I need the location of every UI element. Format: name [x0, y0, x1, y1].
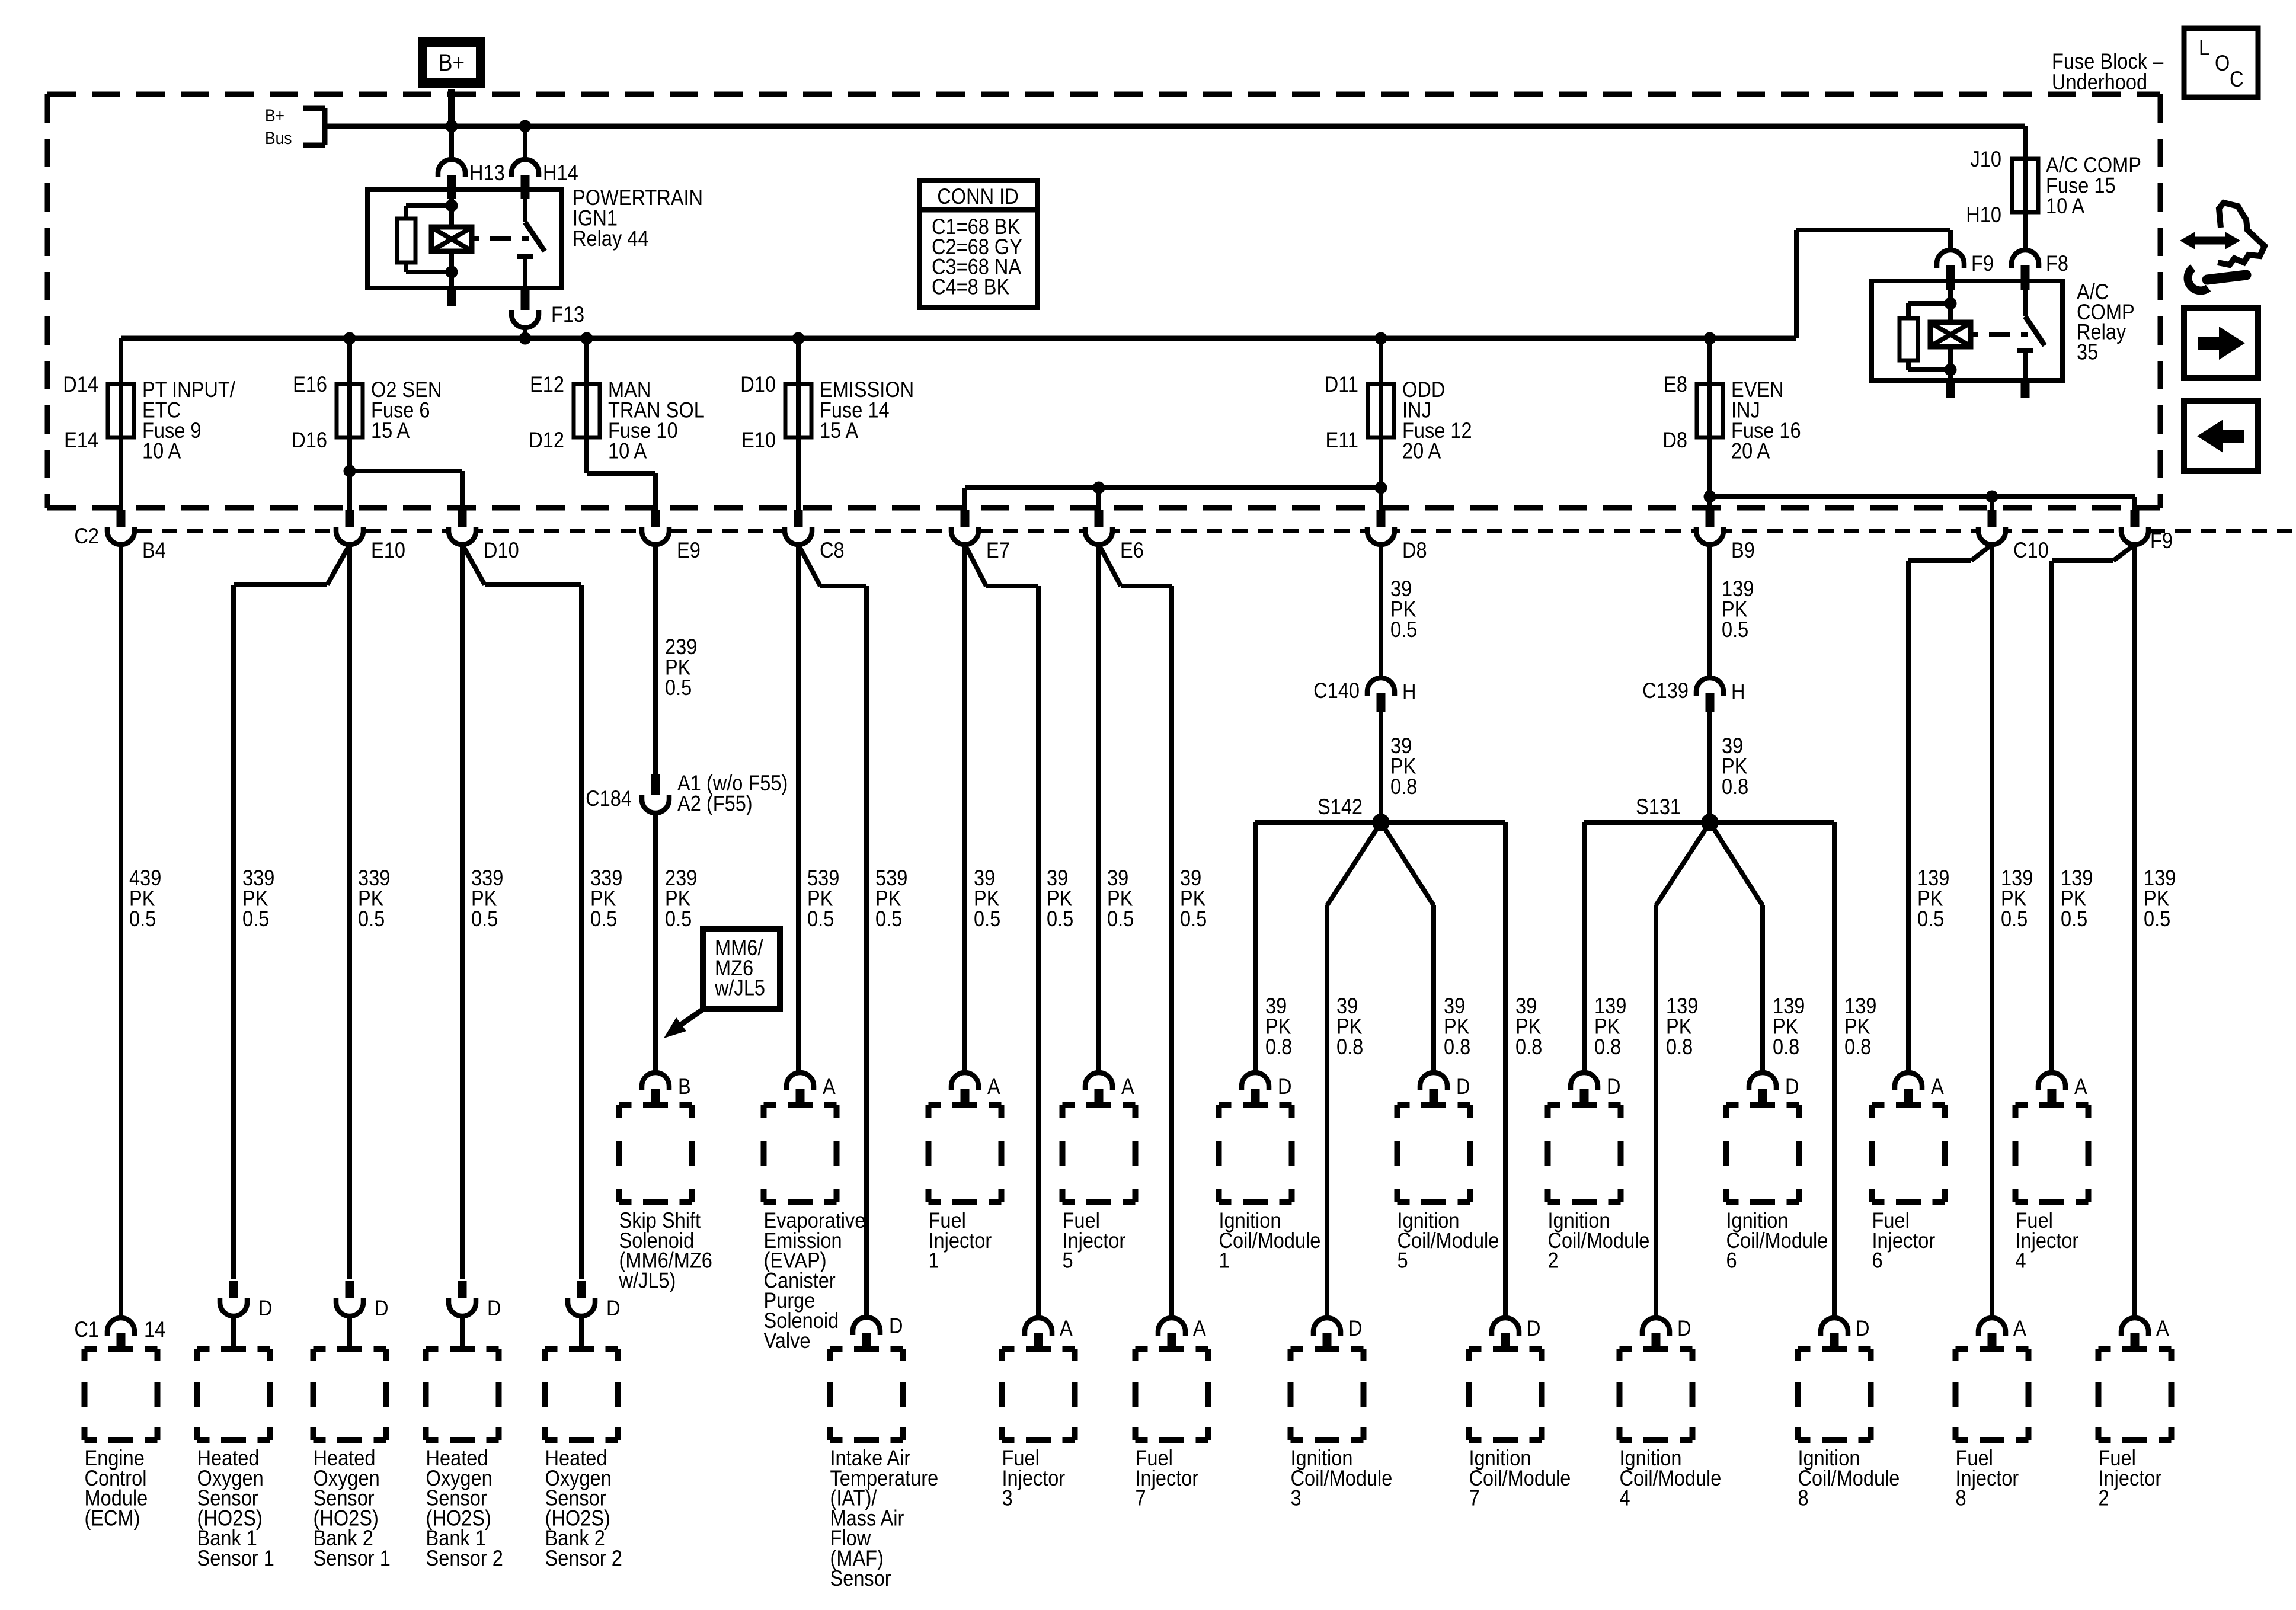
svg-text:E8: E8 — [1664, 372, 1687, 396]
svg-text:H: H — [1731, 680, 1745, 704]
svg-text:C: C — [2230, 67, 2244, 91]
svg-text:20 A: 20 A — [1402, 439, 1441, 463]
svg-text:0.8: 0.8 — [1390, 774, 1417, 799]
svg-text:F9: F9 — [1971, 251, 1994, 276]
svg-text:14: 14 — [144, 1317, 165, 1342]
svg-text:C4=8 BK: C4=8 BK — [932, 274, 1009, 299]
svg-text:E16: E16 — [293, 372, 327, 396]
svg-text:0.8: 0.8 — [1265, 1035, 1292, 1059]
svg-text:D: D — [258, 1296, 273, 1320]
svg-text:E10: E10 — [371, 538, 405, 562]
svg-text:w/JL5: w/JL5 — [714, 976, 765, 1000]
svg-text:0.5: 0.5 — [358, 907, 385, 931]
svg-text:E10: E10 — [741, 428, 776, 452]
svg-text:0.8: 0.8 — [1844, 1035, 1871, 1059]
svg-text:0.5: 0.5 — [1917, 907, 1944, 931]
svg-text:0.5: 0.5 — [590, 907, 617, 931]
svg-text:H14: H14 — [543, 161, 578, 185]
svg-text:C184: C184 — [586, 786, 632, 811]
svg-text:2: 2 — [1548, 1249, 1559, 1273]
svg-text:0.8: 0.8 — [1773, 1035, 1799, 1059]
svg-text:A: A — [1121, 1074, 1134, 1099]
svg-text:20 A: 20 A — [1731, 439, 1770, 463]
svg-text:F9: F9 — [2150, 529, 2173, 553]
svg-text:0.5: 0.5 — [1047, 907, 1073, 931]
svg-text:0.5: 0.5 — [129, 907, 156, 931]
svg-text:D: D — [606, 1296, 621, 1320]
svg-text:0.5: 0.5 — [2144, 907, 2170, 931]
svg-text:E9: E9 — [677, 538, 701, 562]
svg-text:10 A: 10 A — [608, 439, 647, 463]
svg-text:Underhood: Underhood — [2052, 70, 2147, 94]
svg-text:0.5: 0.5 — [1180, 907, 1207, 931]
svg-text:D: D — [889, 1314, 903, 1338]
svg-text:Sensor 1: Sensor 1 — [197, 1546, 274, 1570]
svg-text:Coil/Module: Coil/Module — [1219, 1228, 1321, 1253]
svg-text:35: 35 — [2077, 340, 2098, 364]
svg-text:0.8: 0.8 — [1594, 1035, 1621, 1059]
svg-text:D: D — [1456, 1074, 1470, 1099]
svg-text:0.8: 0.8 — [1722, 774, 1748, 799]
svg-text:S131: S131 — [1636, 795, 1681, 819]
svg-text:2: 2 — [2099, 1486, 2109, 1510]
svg-text:E6: E6 — [1120, 538, 1144, 562]
svg-text:S142: S142 — [1318, 795, 1363, 819]
svg-text:Sensor: Sensor — [830, 1566, 892, 1590]
svg-text:D: D — [1527, 1316, 1541, 1340]
svg-text:D14: D14 — [63, 372, 98, 396]
svg-text:0.5: 0.5 — [1390, 617, 1417, 642]
svg-text:D10: D10 — [484, 538, 519, 562]
svg-text:Coil/Module: Coil/Module — [1620, 1466, 1722, 1490]
svg-text:0.5: 0.5 — [242, 907, 269, 931]
svg-text:3: 3 — [1002, 1486, 1013, 1510]
svg-text:8: 8 — [1956, 1486, 1966, 1510]
svg-text:E11: E11 — [1325, 428, 1358, 452]
svg-text:C139: C139 — [1642, 678, 1689, 703]
svg-text:A: A — [1931, 1074, 1944, 1099]
svg-text:0.8: 0.8 — [1336, 1035, 1363, 1059]
svg-text:0.5: 0.5 — [665, 676, 692, 700]
svg-text:D: D — [1278, 1074, 1292, 1099]
svg-text:1: 1 — [929, 1249, 939, 1273]
svg-text:6: 6 — [1726, 1249, 1737, 1273]
svg-text:7: 7 — [1136, 1486, 1146, 1510]
svg-text:L: L — [2199, 36, 2209, 60]
svg-text:0.5: 0.5 — [1107, 907, 1134, 931]
svg-text:8: 8 — [1798, 1486, 1809, 1510]
svg-text:D: D — [1856, 1316, 1870, 1340]
svg-text:A: A — [1193, 1316, 1206, 1340]
svg-text:15 A: 15 A — [820, 418, 859, 443]
svg-text:D11: D11 — [1325, 372, 1358, 396]
svg-text:D: D — [1607, 1074, 1621, 1099]
svg-text:0.5: 0.5 — [665, 907, 692, 931]
svg-text:0.5: 0.5 — [2061, 907, 2087, 931]
svg-text:4: 4 — [2016, 1249, 2026, 1273]
svg-text:J10: J10 — [1971, 147, 2001, 171]
svg-text:C8: C8 — [820, 538, 845, 562]
svg-text:Sensor 2: Sensor 2 — [545, 1546, 622, 1570]
svg-text:D: D — [375, 1296, 389, 1320]
svg-text:A2 (F55): A2 (F55) — [677, 792, 753, 816]
svg-text:B9: B9 — [1731, 538, 1755, 562]
svg-text:D8: D8 — [1662, 428, 1687, 452]
svg-text:Coil/Module: Coil/Module — [1798, 1466, 1900, 1490]
svg-text:10 A: 10 A — [2046, 194, 2085, 218]
svg-text:E7: E7 — [986, 538, 1010, 562]
svg-text:H: H — [1402, 680, 1416, 704]
svg-text:CONN ID: CONN ID — [937, 184, 1018, 209]
svg-text:D10: D10 — [740, 372, 776, 396]
svg-text:D: D — [487, 1296, 501, 1320]
svg-text:5: 5 — [1398, 1249, 1408, 1273]
svg-text:O: O — [2215, 51, 2230, 75]
svg-text:D: D — [1677, 1316, 1691, 1340]
svg-text:10 A: 10 A — [142, 439, 181, 463]
svg-text:Coil/Module: Coil/Module — [1548, 1228, 1650, 1253]
svg-text:B+: B+ — [265, 105, 284, 125]
svg-text:Coil/Module: Coil/Module — [1291, 1466, 1393, 1490]
svg-text:A: A — [2013, 1316, 2026, 1340]
svg-text:0.5: 0.5 — [1722, 617, 1748, 642]
svg-text:C1: C1 — [74, 1317, 99, 1342]
svg-text:D: D — [1785, 1074, 1799, 1099]
svg-text:A: A — [2074, 1074, 2087, 1099]
svg-text:Bus: Bus — [265, 127, 292, 148]
svg-text:B: B — [678, 1074, 691, 1099]
svg-text:D: D — [1348, 1316, 1363, 1340]
svg-text:Coil/Module: Coil/Module — [1469, 1466, 1571, 1490]
svg-text:B+: B+ — [439, 49, 465, 76]
svg-text:Sensor 2: Sensor 2 — [426, 1546, 503, 1570]
svg-text:A: A — [987, 1074, 1000, 1099]
svg-text:C10: C10 — [2013, 538, 2049, 562]
svg-text:H13: H13 — [469, 161, 505, 185]
svg-text:Coil/Module: Coil/Module — [1726, 1228, 1828, 1253]
svg-text:0.5: 0.5 — [974, 907, 1000, 931]
svg-text:0.8: 0.8 — [1444, 1035, 1470, 1059]
svg-text:0.8: 0.8 — [1666, 1035, 1693, 1059]
svg-text:15 A: 15 A — [371, 418, 410, 443]
svg-text:D16: D16 — [292, 428, 327, 452]
svg-text:C2: C2 — [74, 524, 99, 548]
svg-text:H10: H10 — [1966, 203, 2001, 227]
svg-text:Valve: Valve — [764, 1329, 811, 1353]
svg-text:A: A — [823, 1074, 836, 1099]
svg-text:w/JL5): w/JL5) — [619, 1268, 676, 1292]
svg-text:0.5: 0.5 — [471, 907, 498, 931]
svg-text:7: 7 — [1469, 1486, 1480, 1510]
svg-text:E14: E14 — [64, 428, 98, 452]
svg-text:1: 1 — [1219, 1249, 1230, 1273]
svg-text:A: A — [1060, 1316, 1073, 1340]
svg-text:Relay 44: Relay 44 — [573, 226, 648, 251]
svg-text:D12: D12 — [529, 428, 564, 452]
svg-text:B4: B4 — [142, 538, 166, 562]
svg-text:D8: D8 — [1402, 538, 1427, 562]
svg-text:A: A — [2156, 1316, 2169, 1340]
svg-text:E12: E12 — [530, 372, 564, 396]
svg-text:Coil/Module: Coil/Module — [1398, 1228, 1499, 1253]
svg-text:0.8: 0.8 — [1515, 1035, 1542, 1059]
svg-text:F8: F8 — [2046, 251, 2068, 276]
svg-text:(ECM): (ECM) — [85, 1506, 140, 1530]
svg-text:F13: F13 — [551, 302, 584, 327]
svg-text:C140: C140 — [1313, 678, 1360, 703]
svg-text:0.5: 0.5 — [807, 907, 834, 931]
svg-text:4: 4 — [1620, 1486, 1630, 1510]
svg-text:6: 6 — [1872, 1249, 1883, 1273]
svg-text:3: 3 — [1291, 1486, 1302, 1510]
svg-text:0.5: 0.5 — [875, 907, 902, 931]
svg-text:Sensor 1: Sensor 1 — [314, 1546, 391, 1570]
svg-text:0.5: 0.5 — [2001, 907, 2028, 931]
svg-text:5: 5 — [1063, 1249, 1073, 1273]
